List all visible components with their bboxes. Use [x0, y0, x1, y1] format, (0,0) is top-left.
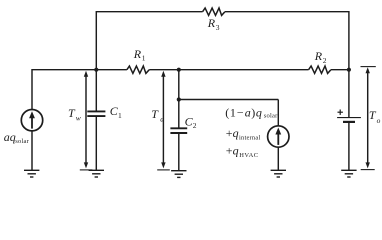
ground (left source) [24, 170, 39, 177]
wire: heat source branch down to current source I2 [277, 100, 279, 127]
svg-text:a: a [160, 115, 164, 124]
node A junction dot (air node) [177, 68, 181, 72]
label aq_solar [4, 130, 30, 145]
ground (C2 branch) [171, 171, 186, 178]
wire top net: right segment to top-right corner [225, 11, 349, 13]
svg-text:w: w [76, 114, 81, 123]
current source I2 ((1-a)q_solar + q_internal + q_HVAC) [268, 126, 289, 147]
T_o measurement arrow (double-headed with end bars) [361, 67, 376, 170]
label T_a [151, 107, 164, 124]
wire: left branch from middle-wire corner down to current source I1 [31, 69, 33, 110]
node O junction dot (outdoor node) [347, 68, 351, 72]
label R1 [133, 47, 146, 63]
battery V1 (outdoor temperature source) plus sign [338, 110, 343, 115]
svg-text:1: 1 [118, 111, 122, 120]
svg-text:HVAC: HVAC [239, 152, 258, 159]
label T_w [68, 106, 81, 123]
battery V1 bottom plate (short) [343, 121, 355, 123]
T_w measurement arrow (double-headed) [80, 71, 93, 170]
svg-text:solar: solar [264, 113, 278, 120]
svg-text:internal: internal [239, 135, 260, 142]
svg-text:+q: +q [226, 144, 239, 158]
svg-text:+q: +q [226, 126, 239, 140]
svg-text:solar: solar [15, 138, 29, 145]
wire top net: wall node (x=96) to outdoor node (x=349), left segment [96, 11, 202, 13]
capacitor C2 [170, 128, 187, 133]
ground (C1 branch) [89, 170, 104, 177]
label C2 [185, 114, 197, 130]
resistor R3 [203, 8, 225, 15]
battery V1 top plate (long) [337, 117, 361, 119]
svg-text:o: o [377, 116, 381, 125]
svg-text:(1−a)q: (1−a)q [225, 105, 262, 119]
svg-text:2: 2 [193, 121, 197, 130]
wire: air-node tap across to heat source branch [179, 99, 278, 101]
wire: current source I1 to ground [31, 131, 33, 170]
svg-text:T: T [151, 107, 159, 121]
wire: capacitor C1 to ground [95, 117, 97, 170]
svg-text:2: 2 [323, 56, 327, 65]
node W junction dot (wall node) [94, 68, 98, 72]
label T_o [369, 108, 381, 125]
wire: junction down to capacitor C2 [178, 100, 180, 128]
wire middle net: air node segment from R1 to R2 [149, 69, 308, 71]
wire: air node down to junction [178, 70, 180, 100]
junction dot at air-node tap [177, 97, 181, 101]
svg-text:R: R [133, 47, 142, 61]
T_a measurement arrow (double-headed) [157, 71, 170, 170]
svg-text:aq: aq [4, 130, 16, 144]
label +q_internal [226, 126, 261, 141]
wire: wall node down to capacitor C1 [95, 70, 97, 111]
wire middle net: left corner to resistor R1 [32, 69, 127, 71]
resistor R1 [127, 66, 149, 73]
label R2 [314, 49, 327, 65]
current source I1 (aq_solar) [21, 110, 42, 131]
wire: vertical from top-left corner down to wall node junction [95, 11, 97, 70]
ground (heat source branch) [271, 170, 286, 177]
label (1-a)q_solar [225, 105, 278, 119]
label +q_HVAC [226, 144, 259, 159]
wire: battery V1 to ground [348, 123, 350, 170]
capacitor C1 [87, 111, 105, 116]
svg-text:1: 1 [142, 54, 146, 63]
resistor R2 [309, 66, 331, 73]
wire middle net: R2 to outdoor junction [331, 69, 349, 71]
ground (battery branch) [341, 170, 356, 177]
wire: capacitor C2 to ground [178, 134, 180, 171]
label C1 [110, 104, 122, 120]
label R3 [207, 16, 220, 32]
svg-text:R: R [207, 16, 216, 30]
svg-text:R: R [314, 49, 323, 63]
svg-text:3: 3 [216, 23, 220, 32]
wire: current source I2 to ground [277, 147, 279, 170]
wire: vertical at x=349 from top-right corner down to battery top plate [348, 11, 350, 117]
